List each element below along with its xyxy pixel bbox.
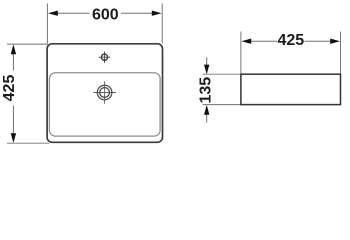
svg-text:425: 425 bbox=[1, 75, 18, 102]
svg-text:135: 135 bbox=[198, 77, 215, 104]
svg-text:425: 425 bbox=[277, 32, 304, 49]
svg-text:600: 600 bbox=[92, 7, 119, 24]
